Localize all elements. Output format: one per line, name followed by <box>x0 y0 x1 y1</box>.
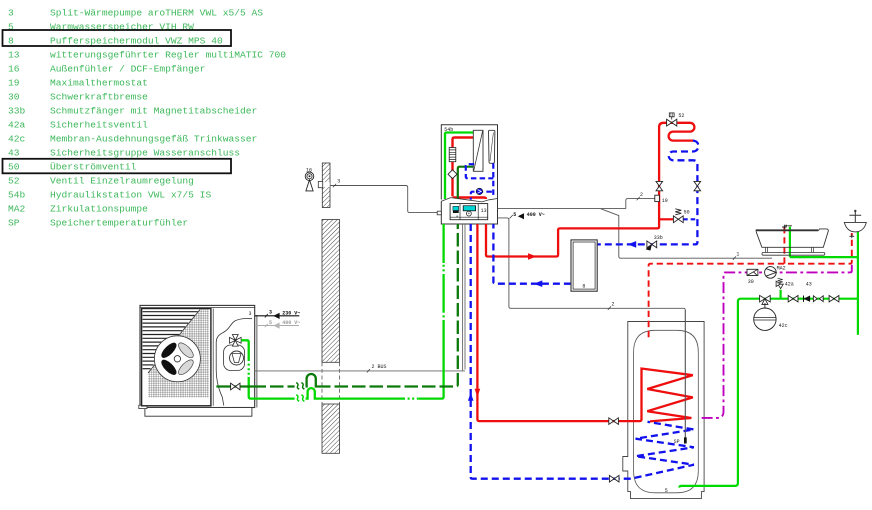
wire label 2 (19 cable) <box>637 197 640 201</box>
svg-text:52: 52 <box>8 175 20 186</box>
svg-text:13: 13 <box>481 208 487 214</box>
svg-text:5: 5 <box>269 320 272 326</box>
svg-text:2 BUS: 2 BUS <box>372 364 387 370</box>
svg-text:SP: SP <box>674 439 680 445</box>
station pump <box>476 188 482 194</box>
wall lower segment <box>322 404 340 453</box>
230V supply line <box>255 315 300 317</box>
svg-text:Membran-Ausdehnungsgefäß Trink: Membran-Ausdehnungsgefäß Trinkwasser <box>50 133 257 144</box>
buffer module 8 <box>571 240 597 291</box>
sensor cable to controller <box>330 186 437 213</box>
outdoor sensor 16 (DCF antenna) <box>305 172 314 191</box>
svg-text:Split-Wärmepumpe aroTHERM VWL: Split-Wärmepumpe aroTHERM VWL x5/5 AS <box>50 7 263 18</box>
svg-text:43: 43 <box>806 282 812 288</box>
hot water line red dashed <box>649 227 852 337</box>
heating circuit blue serpentine and return <box>597 141 698 245</box>
svg-text:1: 1 <box>736 252 739 258</box>
svg-text:3: 3 <box>269 310 272 316</box>
expansion vessel (narrow) <box>489 130 495 163</box>
display cell 1 <box>453 206 459 210</box>
BUS label <box>367 369 370 373</box>
230V arrow <box>273 313 279 319</box>
grille panel frame <box>142 309 211 406</box>
svg-text:50: 50 <box>684 210 690 216</box>
blue arrow left on return <box>628 241 637 248</box>
svg-text:19: 19 <box>662 198 668 204</box>
4-way valve <box>230 335 242 347</box>
tap tick at basin <box>850 234 855 238</box>
heating return blue to controller <box>493 224 571 284</box>
cover cut edge <box>148 310 200 374</box>
fan blade light upper-right <box>176 341 195 360</box>
svg-text:400 V~: 400 V~ <box>527 212 545 218</box>
wire label 2 on SP cable <box>608 306 611 310</box>
tank inner vessel <box>634 330 699 493</box>
SP sensor <box>684 437 687 443</box>
cold water line bright green <box>679 227 858 488</box>
basin tap <box>849 212 861 223</box>
wall small top segment <box>322 163 330 208</box>
wall upper segment <box>322 220 340 363</box>
mesh grid region <box>148 310 209 398</box>
400V arrow near controller <box>518 213 524 219</box>
svg-text:13: 13 <box>8 49 20 60</box>
svg-text:33b: 33b <box>8 105 26 116</box>
WALLS <box>305 163 437 453</box>
heating supply red from controller <box>486 123 694 257</box>
TANKSHELL <box>623 322 704 499</box>
filter on red line <box>449 148 456 162</box>
svg-text:Speichertemperaturfühler: Speichertemperaturfühler <box>50 217 188 228</box>
heat pump base plinth <box>145 408 252 417</box>
break marks on bright green <box>296 395 304 402</box>
check valve diamond <box>448 170 457 179</box>
heat pump cabinet outline (unit 3) <box>140 305 255 407</box>
bath taps <box>782 225 792 229</box>
fan hub <box>174 356 180 362</box>
valve on blue riser <box>694 181 701 190</box>
safety group 43 valves <box>788 296 798 302</box>
circulation line magenta <box>700 265 852 418</box>
display cell 2 <box>463 205 476 211</box>
compressor enclosure <box>224 345 245 371</box>
valve on red riser <box>656 181 663 190</box>
svg-text:Pufferspeichermodul VWZ MPS 40: Pufferspeichermodul VWZ MPS 40 <box>50 35 223 46</box>
svg-text:8: 8 <box>8 35 14 46</box>
svg-text:Zirkulationspumpe: Zirkulationspumpe <box>50 203 148 214</box>
svg-text:3: 3 <box>249 311 252 317</box>
STATION <box>437 125 772 438</box>
dark green return inside station <box>458 167 474 199</box>
svg-text:3: 3 <box>8 7 14 18</box>
highlight box row 8 <box>3 30 232 46</box>
svg-text:Hydraulikstation VWL x7/5 IS: Hydraulikstation VWL x7/5 IS <box>50 189 211 200</box>
tank return blue <box>471 224 694 479</box>
plate heat exchanger <box>473 130 483 171</box>
cable break tick <box>333 184 336 187</box>
tank loading supply red <box>477 224 692 421</box>
controller inner panel <box>450 204 488 220</box>
svg-text:Sicherheitsgruppe Wasseranschl: Sicherheitsgruppe Wasseranschluss <box>50 147 240 158</box>
flow line (red) inside station <box>453 138 476 197</box>
valve on tank supply <box>609 418 619 425</box>
refrigerant line (bright green) inside station <box>445 133 474 200</box>
valve on tank return <box>609 475 619 482</box>
expansion vessel 42c <box>754 308 776 330</box>
side panel curve <box>216 319 252 406</box>
svg-text:Außenfühler / DCF-Empfänger: Außenfühler / DCF-Empfänger <box>50 63 205 74</box>
controller left tab <box>437 211 441 215</box>
controller 13 box <box>441 199 497 225</box>
maximal thermostat 19 <box>655 195 660 201</box>
dark green return HP to station (dashed) <box>216 224 457 387</box>
svg-text:30: 30 <box>748 279 754 285</box>
svg-text:MA2: MA2 <box>777 266 786 272</box>
svg-text:MA2: MA2 <box>8 203 26 214</box>
svg-text:30: 30 <box>8 91 20 102</box>
400V supply line (grey) <box>255 325 299 327</box>
svg-text:witterungsgeführter Regler mul: witterungsgeführter Regler multiMATIC 70… <box>50 49 286 60</box>
BUS cable to heat pump <box>255 370 465 372</box>
wire label 1 (bath cable) <box>733 256 736 260</box>
svg-text:230 V~: 230 V~ <box>282 310 300 316</box>
svg-text:2: 2 <box>640 192 643 198</box>
red bottom manifold <box>453 198 487 204</box>
blue arrow left lower <box>534 280 543 287</box>
SP sensor line in tank <box>684 310 686 437</box>
svg-text:Maximalthermostat: Maximalthermostat <box>50 77 148 88</box>
svg-text:Sicherheitsventil: Sicherheitsventil <box>50 119 148 130</box>
washbasin <box>844 222 866 232</box>
fan disc <box>154 336 200 382</box>
RIGHTSIDE <box>649 210 867 494</box>
400V arrow grey <box>273 323 279 329</box>
svg-text:42a: 42a <box>785 282 794 288</box>
strainer 33b <box>647 241 657 248</box>
svg-text:5: 5 <box>513 212 516 218</box>
svg-text:52: 52 <box>678 113 684 119</box>
torn top edge of controller <box>441 198 497 202</box>
svg-text:2: 2 <box>612 302 615 308</box>
PIPES <box>216 113 700 482</box>
fan blade dark lower-left <box>159 358 178 377</box>
svg-text:400 V~: 400 V~ <box>282 320 300 326</box>
svg-text:3: 3 <box>337 179 340 185</box>
svg-text:19: 19 <box>8 77 20 88</box>
refrigerant line bright green HP to station <box>241 224 444 399</box>
safety valve 42a <box>776 281 783 289</box>
overflow valve 50 branch <box>659 218 673 220</box>
sensor box on wall <box>323 182 330 187</box>
break marks on dark green <box>296 383 304 390</box>
blue loop in station <box>466 163 494 196</box>
svg-text:33b: 33b <box>654 235 663 241</box>
LEGEND <box>3 7 287 228</box>
svg-text:54b: 54b <box>8 189 26 200</box>
blue pump line <box>471 192 494 203</box>
400V cable stub right <box>498 218 686 437</box>
svg-text:Überströmventil: Überströmventil <box>50 161 137 172</box>
zone valve 52 <box>667 119 677 126</box>
gravity brake 30 <box>747 269 758 275</box>
svg-text:50: 50 <box>8 161 20 172</box>
svg-text:8: 8 <box>582 284 585 290</box>
louvre slats <box>143 312 198 369</box>
compressor <box>230 351 244 365</box>
svg-text:42c: 42c <box>8 133 26 144</box>
bathtub <box>756 229 829 255</box>
three-way valve at 42c <box>760 295 771 304</box>
thermostat cable from controller <box>498 199 773 259</box>
BUS cable vertical pair <box>463 224 465 371</box>
svg-text:43: 43 <box>8 147 20 158</box>
HEATPUMP <box>139 305 301 416</box>
svg-text:16: 16 <box>306 168 312 174</box>
svg-text:16: 16 <box>8 63 20 74</box>
dark green shutoff valve at HP <box>231 383 240 390</box>
fan blade light lower-right <box>176 358 195 377</box>
storage tank 5 outer shell <box>623 322 704 499</box>
wall opening (dashed edges) <box>322 362 340 404</box>
circulation pump MA2 <box>765 267 777 279</box>
hydraulic station 54b box <box>441 125 497 200</box>
svg-text:42c: 42c <box>779 323 788 329</box>
svg-text:SP: SP <box>8 217 20 228</box>
blue arrow up <box>468 393 474 401</box>
svg-text:Schwerkraftbremse: Schwerkraftbremse <box>50 91 148 102</box>
svg-text:Schmutzfänger mit Magnetitabsc: Schmutzfänger mit Magnetitabscheider <box>50 105 257 116</box>
red arrow right <box>528 253 537 260</box>
svg-text:Ventil Einzelraumregelung: Ventil Einzelraumregelung <box>50 175 194 186</box>
svg-text:5: 5 <box>665 488 668 494</box>
svg-text:42a: 42a <box>8 119 26 130</box>
red arrow down <box>475 389 481 397</box>
highlight box row 50 <box>3 159 232 174</box>
fan blade dark upper-left <box>159 341 178 360</box>
